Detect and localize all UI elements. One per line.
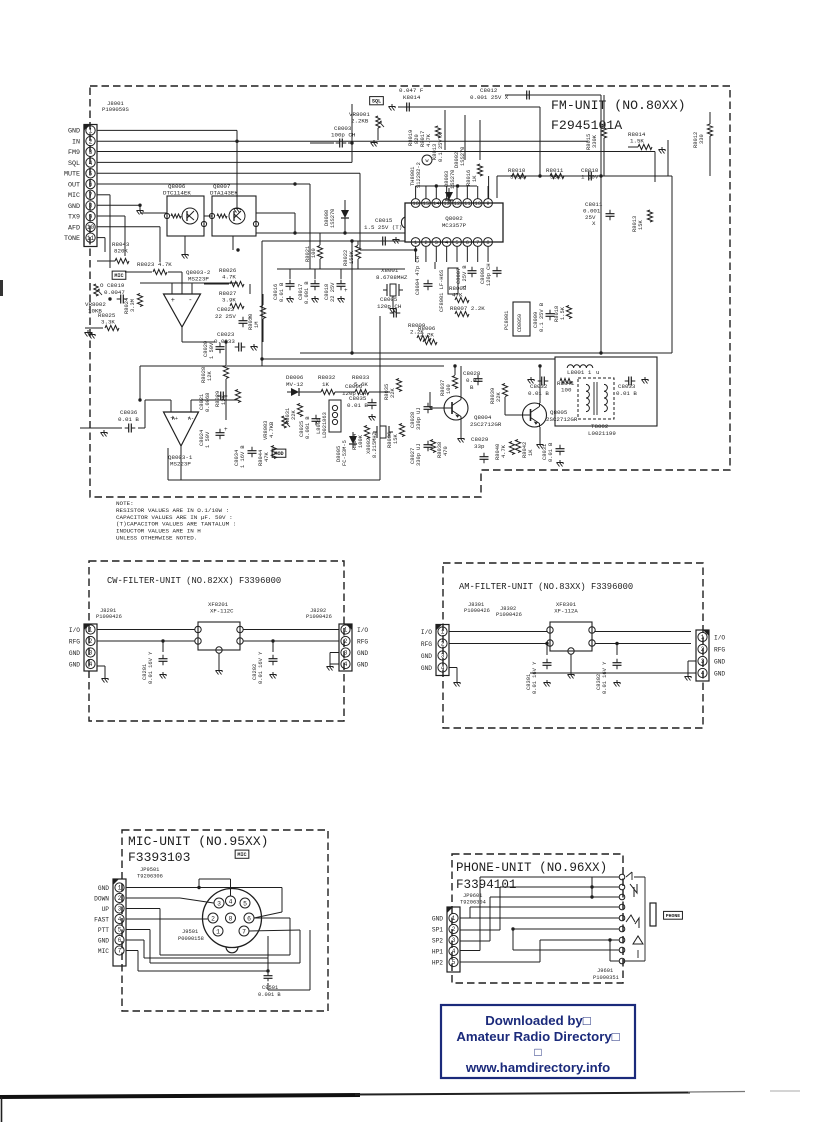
svg-text:3: 3	[118, 906, 122, 913]
svg-text:4.7K: 4.7K	[222, 274, 236, 281]
svg-text:SP1: SP1	[432, 926, 443, 933]
svg-text:10: 10	[87, 224, 95, 231]
svg-text:+: +	[344, 287, 348, 294]
svg-text:R8033: R8033	[352, 374, 370, 381]
svg-text:Amateur Radio Directory□: Amateur Radio Directory□	[456, 1029, 619, 1044]
svg-text:100K: 100K	[358, 434, 364, 448]
svg-text:J9501: J9501	[182, 929, 198, 935]
svg-text:1: 1	[89, 128, 93, 135]
svg-text:CF8001 LF-H6S: CF8001 LF-H6S	[439, 270, 445, 312]
svg-text:GND: GND	[69, 650, 80, 657]
svg-text:TONE: TONE	[64, 235, 80, 243]
svg-text:HP2: HP2	[432, 959, 443, 966]
svg-text:MIC-UNIT (NO.95XX): MIC-UNIT (NO.95XX)	[128, 834, 268, 849]
svg-text:2: 2	[344, 638, 348, 645]
svg-text:+: +	[224, 426, 228, 433]
svg-text:2: 2	[89, 138, 93, 145]
svg-text:MC3357P: MC3357P	[442, 222, 467, 229]
svg-text:6: 6	[118, 937, 122, 944]
svg-text:GND: GND	[714, 658, 725, 665]
svg-text:MIC: MIC	[98, 948, 109, 955]
svg-text:T9206304: T9206304	[460, 900, 486, 906]
svg-text:SP2: SP2	[432, 937, 443, 944]
svg-text:C8029: C8029	[471, 436, 489, 443]
svg-text:L8001 1: L8001 1	[567, 369, 592, 376]
svg-text:LD021863: LD021863	[322, 412, 328, 438]
svg-text:K8014: K8014	[403, 94, 421, 101]
svg-text:4.7KB: 4.7KB	[269, 421, 275, 438]
svg-text:RFG: RFG	[421, 641, 432, 648]
svg-text:330K: 330K	[592, 134, 598, 148]
svg-text:AM-FILTER-UNIT (NO.83XX) F3396: AM-FILTER-UNIT (NO.83XX) F3396000	[459, 582, 633, 592]
svg-text:1: 1	[344, 627, 348, 634]
svg-text:330p UJ: 330p UJ	[416, 407, 422, 430]
svg-text:120p CH: 120p CH	[377, 303, 402, 310]
svg-text:w: w	[425, 158, 428, 164]
svg-text:1: 1	[89, 627, 93, 634]
svg-text:1 50V: 1 50V	[581, 174, 599, 181]
svg-text:6: 6	[466, 240, 469, 246]
svg-text:22 25V: 22 25V	[215, 313, 236, 320]
svg-text:GND: GND	[432, 915, 443, 922]
svg-text:120p CH: 120p CH	[486, 263, 492, 286]
svg-text:0.047 F: 0.047 F	[399, 87, 424, 94]
svg-text:11: 11	[87, 235, 95, 242]
svg-text:AFD: AFD	[68, 224, 80, 232]
svg-text:+: +	[248, 315, 252, 322]
svg-text:8: 8	[486, 240, 489, 246]
svg-text:0.01 B: 0.01 B	[347, 402, 368, 409]
svg-text:CD8050: CD8050	[517, 314, 523, 332]
svg-text:0.01 B: 0.01 B	[548, 442, 554, 462]
svg-text:OUT: OUT	[68, 181, 80, 189]
svg-text:C8012: C8012	[480, 87, 498, 94]
svg-text:GND: GND	[68, 203, 80, 211]
svg-text:1.5K: 1.5K	[630, 138, 644, 145]
svg-text:4: 4	[441, 665, 445, 672]
svg-text:S12282-2: S12282-2	[416, 162, 422, 188]
svg-text:13: 13	[443, 201, 449, 207]
svg-text:1 50V: 1 50V	[209, 342, 215, 359]
svg-text:2: 2	[701, 646, 705, 653]
svg-text:1: 1	[701, 634, 705, 641]
svg-text:Downloaded by□: Downloaded by□	[485, 1013, 590, 1028]
svg-text:HP1: HP1	[432, 948, 443, 955]
svg-text:PHONE: PHONE	[666, 913, 681, 919]
svg-text:u: u	[596, 369, 599, 376]
svg-text:7: 7	[89, 192, 93, 199]
svg-text:7: 7	[242, 928, 246, 935]
svg-text:3: 3	[441, 653, 445, 660]
svg-text:F2945101A: F2945101A	[551, 118, 622, 133]
svg-text:1: 1	[452, 915, 456, 922]
svg-text:8: 8	[89, 203, 93, 210]
svg-text:P0090158: P0090158	[178, 936, 204, 942]
svg-text:C8004 47p CH: C8004 47p CH	[415, 256, 421, 295]
svg-text:22K: 22K	[496, 392, 502, 402]
svg-text:P1090426: P1090426	[496, 612, 522, 618]
svg-text:I/O: I/O	[69, 627, 80, 634]
svg-text:F3393103: F3393103	[128, 850, 190, 865]
svg-text:15K: 15K	[393, 434, 399, 444]
svg-text:XF-112C: XF-112C	[210, 608, 234, 615]
svg-text:5: 5	[452, 959, 456, 966]
svg-text:T8002: T8002	[591, 423, 609, 430]
svg-text:6: 6	[89, 181, 93, 188]
svg-text:P1090426: P1090426	[96, 614, 122, 620]
svg-text:P1090351: P1090351	[593, 975, 619, 981]
svg-text:0.0068: 0.0068	[205, 393, 211, 412]
svg-text:F3394101: F3394101	[456, 878, 516, 892]
svg-text:16: 16	[412, 201, 418, 207]
svg-text:2: 2	[441, 641, 445, 648]
svg-text:PTT: PTT	[98, 927, 109, 934]
svg-text:C8015: C8015	[375, 217, 393, 224]
svg-text:J9601: J9601	[597, 968, 613, 974]
svg-text:R8007 2.2K: R8007 2.2K	[450, 305, 485, 312]
svg-text:0.001 B: 0.001 B	[305, 416, 311, 439]
svg-text:1SS270: 1SS270	[330, 209, 336, 228]
svg-text:P1090426: P1090426	[306, 614, 332, 620]
svg-text:FM-UNIT (NO.80XX): FM-UNIT (NO.80XX)	[551, 98, 686, 113]
svg-text:RFG: RFG	[69, 638, 80, 645]
svg-text:5: 5	[455, 240, 458, 246]
svg-text:C8036: C8036	[120, 409, 138, 416]
svg-text:2: 2	[118, 895, 122, 902]
svg-text:100: 100	[311, 248, 317, 258]
svg-text:0.01 B: 0.01 B	[528, 390, 549, 397]
svg-text:RFG: RFG	[714, 646, 725, 653]
svg-text:100p CH: 100p CH	[331, 132, 356, 139]
svg-text:4.7K: 4.7K	[501, 444, 507, 458]
svg-text:MIC: MIC	[114, 273, 123, 279]
svg-text:GND: GND	[357, 661, 368, 668]
svg-text:Q8004: Q8004	[474, 414, 492, 421]
svg-text:1M: 1M	[254, 322, 260, 328]
svg-text:12: 12	[454, 201, 460, 207]
svg-text:CW-FILTER-UNIT (NO.82XX) F3396: CW-FILTER-UNIT (NO.82XX) F3396000	[107, 576, 281, 586]
svg-text:0.01 B: 0.01 B	[118, 416, 139, 423]
svg-text:470: 470	[443, 446, 449, 456]
svg-text:1 50V: 1 50V	[205, 431, 211, 448]
svg-text:100: 100	[446, 384, 452, 394]
svg-text:820K: 820K	[114, 248, 128, 255]
svg-text:3: 3	[344, 650, 348, 657]
svg-text:GND: GND	[98, 885, 109, 892]
svg-text:4: 4	[229, 898, 233, 905]
svg-text:5.6K: 5.6K	[354, 381, 368, 388]
svg-text:7: 7	[118, 948, 122, 955]
svg-text:+: +	[171, 297, 175, 305]
svg-text:6: 6	[247, 915, 251, 922]
svg-text:4: 4	[344, 661, 348, 668]
svg-text:2: 2	[452, 926, 456, 933]
svg-text:2.2KB: 2.2KB	[351, 118, 369, 125]
svg-text:MS223P: MS223P	[188, 276, 209, 283]
svg-text:C8005: C8005	[380, 296, 398, 303]
svg-text:0.001 B: 0.001 B	[304, 281, 310, 304]
svg-text:330p UJ: 330p UJ	[416, 443, 422, 466]
svg-text:P109059S: P109059S	[102, 106, 129, 113]
svg-text:7: 7	[476, 240, 479, 246]
svg-text:R8023 4.7K: R8023 4.7K	[137, 261, 172, 268]
svg-text:33p: 33p	[474, 443, 485, 450]
svg-text:1K: 1K	[322, 381, 329, 388]
svg-text:P1090426: P1090426	[464, 608, 490, 614]
svg-text:4: 4	[452, 948, 456, 955]
svg-text:5: 5	[89, 170, 93, 177]
svg-text:8.6708MHZ: 8.6708MHZ	[376, 274, 408, 281]
svg-text:T9206306: T9206306	[137, 874, 163, 880]
svg-text:22K: 22K	[291, 410, 297, 420]
svg-text:DTC114EK: DTC114EK	[163, 190, 191, 197]
svg-text:0.01 16V Y: 0.01 16V Y	[258, 651, 264, 684]
svg-text:TX9: TX9	[68, 214, 80, 222]
svg-text:GND: GND	[421, 665, 432, 672]
svg-text:0.01 16V Y: 0.01 16V Y	[602, 661, 608, 694]
svg-text:100: 100	[561, 387, 572, 394]
svg-text:3: 3	[701, 658, 705, 665]
svg-text:Q8002: Q8002	[445, 215, 463, 222]
svg-text:4: 4	[118, 916, 122, 923]
svg-text:3: 3	[435, 240, 438, 246]
svg-text:MV-12: MV-12	[286, 381, 304, 388]
svg-text:GND: GND	[98, 937, 109, 944]
svg-text:0.0047: 0.0047	[104, 289, 125, 296]
svg-text:JP9501: JP9501	[140, 867, 159, 873]
svg-text:A+: A+	[172, 416, 178, 422]
svg-text:330: 330	[699, 134, 705, 144]
svg-text:1.5 25V (T): 1.5 25V (T)	[364, 224, 402, 231]
svg-text:14: 14	[433, 201, 439, 207]
svg-text:1: 1	[441, 629, 445, 636]
svg-text:5: 5	[118, 927, 122, 934]
svg-text:MOD: MOD	[274, 451, 283, 457]
svg-text:PHONE-UNIT (NO.96XX): PHONE-UNIT (NO.96XX)	[456, 861, 607, 875]
svg-text:2: 2	[424, 240, 427, 246]
svg-text:DOWN: DOWN	[94, 895, 109, 902]
svg-text:3: 3	[89, 650, 93, 657]
svg-text:15: 15	[423, 201, 429, 207]
svg-text:1: 1	[414, 240, 417, 246]
svg-text:FAST: FAST	[94, 916, 109, 923]
svg-text:GND: GND	[69, 661, 80, 668]
svg-text:GND: GND	[68, 128, 80, 136]
svg-text:2: 2	[89, 638, 93, 645]
svg-text:2: 2	[211, 915, 215, 922]
svg-text:C8032: C8032	[530, 383, 548, 390]
svg-text:L0021199: L0021199	[588, 430, 616, 437]
svg-text:12K: 12K	[207, 371, 213, 381]
svg-text:UP: UP	[102, 906, 110, 913]
svg-text:1: 1	[216, 928, 220, 935]
svg-text:1: 1	[118, 885, 122, 892]
svg-text:B: B	[470, 384, 474, 391]
svg-text:1 16V B: 1 16V B	[240, 445, 246, 468]
svg-text:0.1 25V X: 0.1 25V X	[438, 132, 444, 162]
svg-text:1K: 1K	[528, 449, 534, 456]
svg-text:FC-53M-5: FC-53M-5	[342, 440, 348, 466]
svg-text:11: 11	[464, 201, 470, 207]
svg-text:4: 4	[701, 670, 705, 677]
svg-text:Q8005: Q8005	[550, 409, 568, 416]
svg-text:1K: 1K	[472, 175, 478, 182]
svg-text:3: 3	[452, 937, 456, 944]
svg-text:GND: GND	[357, 650, 368, 657]
svg-text:MIC: MIC	[237, 852, 246, 858]
svg-text:2SC2712GR: 2SC2712GR	[470, 421, 502, 428]
svg-text:IN: IN	[72, 138, 80, 146]
svg-text:I/O: I/O	[421, 629, 432, 636]
svg-text:1.5K: 1.5K	[560, 306, 566, 320]
svg-text:0.01 16V Y: 0.01 16V Y	[148, 651, 154, 684]
svg-text:15K: 15K	[638, 220, 644, 230]
svg-text:R8032: R8032	[318, 374, 336, 381]
svg-text:3.3M: 3.3M	[130, 299, 136, 312]
svg-text:3.3K: 3.3K	[101, 319, 115, 326]
svg-text:8: 8	[229, 915, 233, 922]
svg-text:4: 4	[445, 240, 448, 246]
svg-text:2SC2712GR: 2SC2712GR	[546, 416, 578, 423]
svg-text:www.hamdirectory.info: www.hamdirectory.info	[465, 1060, 610, 1075]
svg-text:SQL: SQL	[68, 160, 80, 168]
svg-text:X: X	[592, 220, 596, 227]
svg-text:-: -	[188, 297, 192, 305]
svg-text:0.01 B: 0.01 B	[616, 390, 637, 397]
svg-text:4: 4	[89, 661, 93, 668]
svg-text:I/O: I/O	[357, 627, 368, 634]
svg-text:MUTE: MUTE	[64, 171, 80, 179]
svg-text:GND: GND	[714, 670, 725, 677]
svg-text:22 25V: 22 25V	[330, 282, 336, 302]
svg-text:RFG: RFG	[357, 638, 368, 645]
svg-text:9: 9	[89, 213, 93, 220]
svg-text:0.001 25V X: 0.001 25V X	[470, 94, 509, 101]
svg-text:C8023: C8023	[217, 331, 235, 338]
svg-text:9: 9	[486, 201, 489, 207]
svg-text:MIC: MIC	[68, 192, 80, 200]
svg-text:SQL: SQL	[372, 99, 381, 105]
svg-text:D8006: D8006	[286, 374, 304, 381]
svg-text:47K: 47K	[264, 452, 270, 462]
svg-text:XF-112A: XF-112A	[554, 608, 578, 615]
svg-text:0.1 25V B: 0.1 25V B	[539, 302, 545, 332]
svg-text:2.2K: 2.2K	[420, 332, 434, 339]
svg-text:3: 3	[89, 149, 93, 156]
svg-text:0.001 B: 0.001 B	[258, 992, 281, 998]
svg-text:4: 4	[89, 160, 93, 167]
svg-text:0.01 B: 0.01 B	[279, 282, 285, 302]
svg-text:UNLESS OTHERWISE NOTED.: UNLESS OTHERWISE NOTED.	[116, 535, 197, 542]
svg-text:C8035: C8035	[349, 395, 367, 402]
svg-text:22K: 22K	[390, 388, 396, 398]
svg-text:10: 10	[474, 201, 480, 207]
svg-text:A-: A-	[188, 416, 194, 422]
svg-text:FM9: FM9	[68, 149, 80, 157]
svg-text:DTA143EK: DTA143EK	[210, 190, 238, 197]
svg-text:I/O: I/O	[714, 634, 725, 641]
svg-text:GND: GND	[421, 653, 432, 660]
svg-text:5: 5	[243, 900, 247, 907]
svg-text:□: □	[534, 1045, 541, 1059]
svg-text:X8001: X8001	[381, 267, 399, 274]
svg-text:3: 3	[217, 900, 221, 907]
svg-text:3.9K: 3.9K	[222, 297, 236, 304]
svg-text:O C8019: O C8019	[100, 282, 125, 289]
svg-text:C8033: C8033	[618, 383, 636, 390]
svg-text:PC8001: PC8001	[504, 311, 510, 330]
svg-text:0.01 16V Y: 0.01 16V Y	[532, 661, 538, 694]
svg-text:C8022: C8022	[217, 306, 235, 313]
